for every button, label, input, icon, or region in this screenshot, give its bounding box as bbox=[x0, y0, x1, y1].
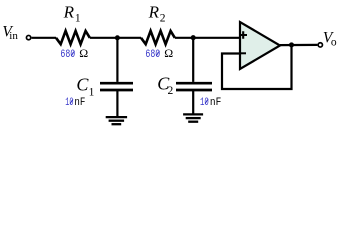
wire: node A down to C1 bbox=[116, 38, 118, 82]
wire: op-amp output to Vo terminal bbox=[280, 44, 317, 46]
pin - (inverting input) bbox=[240, 52, 247, 54]
wire: C1 to ground bbox=[116, 90, 118, 117]
resistor R1 bbox=[56, 31, 90, 44]
capacitor C1 bbox=[100, 82, 133, 85]
wire: node B down to C2 bbox=[192, 38, 194, 82]
capacitor C2 bbox=[176, 82, 212, 85]
node: output junction bbox=[289, 42, 294, 47]
svg-text:680: 680 bbox=[145, 49, 160, 61]
node A junction bbox=[115, 35, 120, 40]
ground (C2) bbox=[183, 113, 203, 115]
wire: R2 to node B bbox=[175, 37, 240, 39]
wire: R1 to node A bbox=[90, 37, 141, 39]
svg-text:10: 10 bbox=[200, 97, 209, 109]
svg-text:o: o bbox=[331, 37, 337, 49]
resistor R2 bbox=[141, 31, 175, 44]
ground (C1) bbox=[106, 116, 127, 118]
svg-text:1: 1 bbox=[89, 86, 95, 98]
wire: input lead to R1 bbox=[32, 37, 56, 39]
terminal Vo bbox=[318, 43, 322, 47]
svg-text:1: 1 bbox=[75, 12, 81, 24]
pin + (non-inverting input) bbox=[240, 31, 248, 39]
svg-text:2: 2 bbox=[168, 85, 174, 97]
svg-text:R: R bbox=[148, 3, 160, 22]
svg-text:nF: nF bbox=[74, 97, 85, 109]
svg-text:Ω: Ω bbox=[164, 46, 173, 60]
node B junction bbox=[191, 35, 196, 40]
svg-text:in: in bbox=[9, 30, 18, 42]
svg-text:R: R bbox=[63, 3, 75, 22]
svg-text:nF: nF bbox=[210, 97, 221, 109]
op-amp U1 bbox=[240, 22, 280, 69]
wire: feedback loop (output to inverting input) bbox=[222, 45, 292, 89]
svg-text:C: C bbox=[76, 75, 89, 95]
svg-text:10: 10 bbox=[65, 97, 73, 109]
wire: C2 to ground bbox=[192, 90, 194, 114]
svg-text:2: 2 bbox=[160, 12, 166, 24]
terminal Vin bbox=[26, 35, 30, 39]
svg-text:Ω: Ω bbox=[79, 46, 88, 60]
svg-text:680: 680 bbox=[60, 49, 75, 61]
